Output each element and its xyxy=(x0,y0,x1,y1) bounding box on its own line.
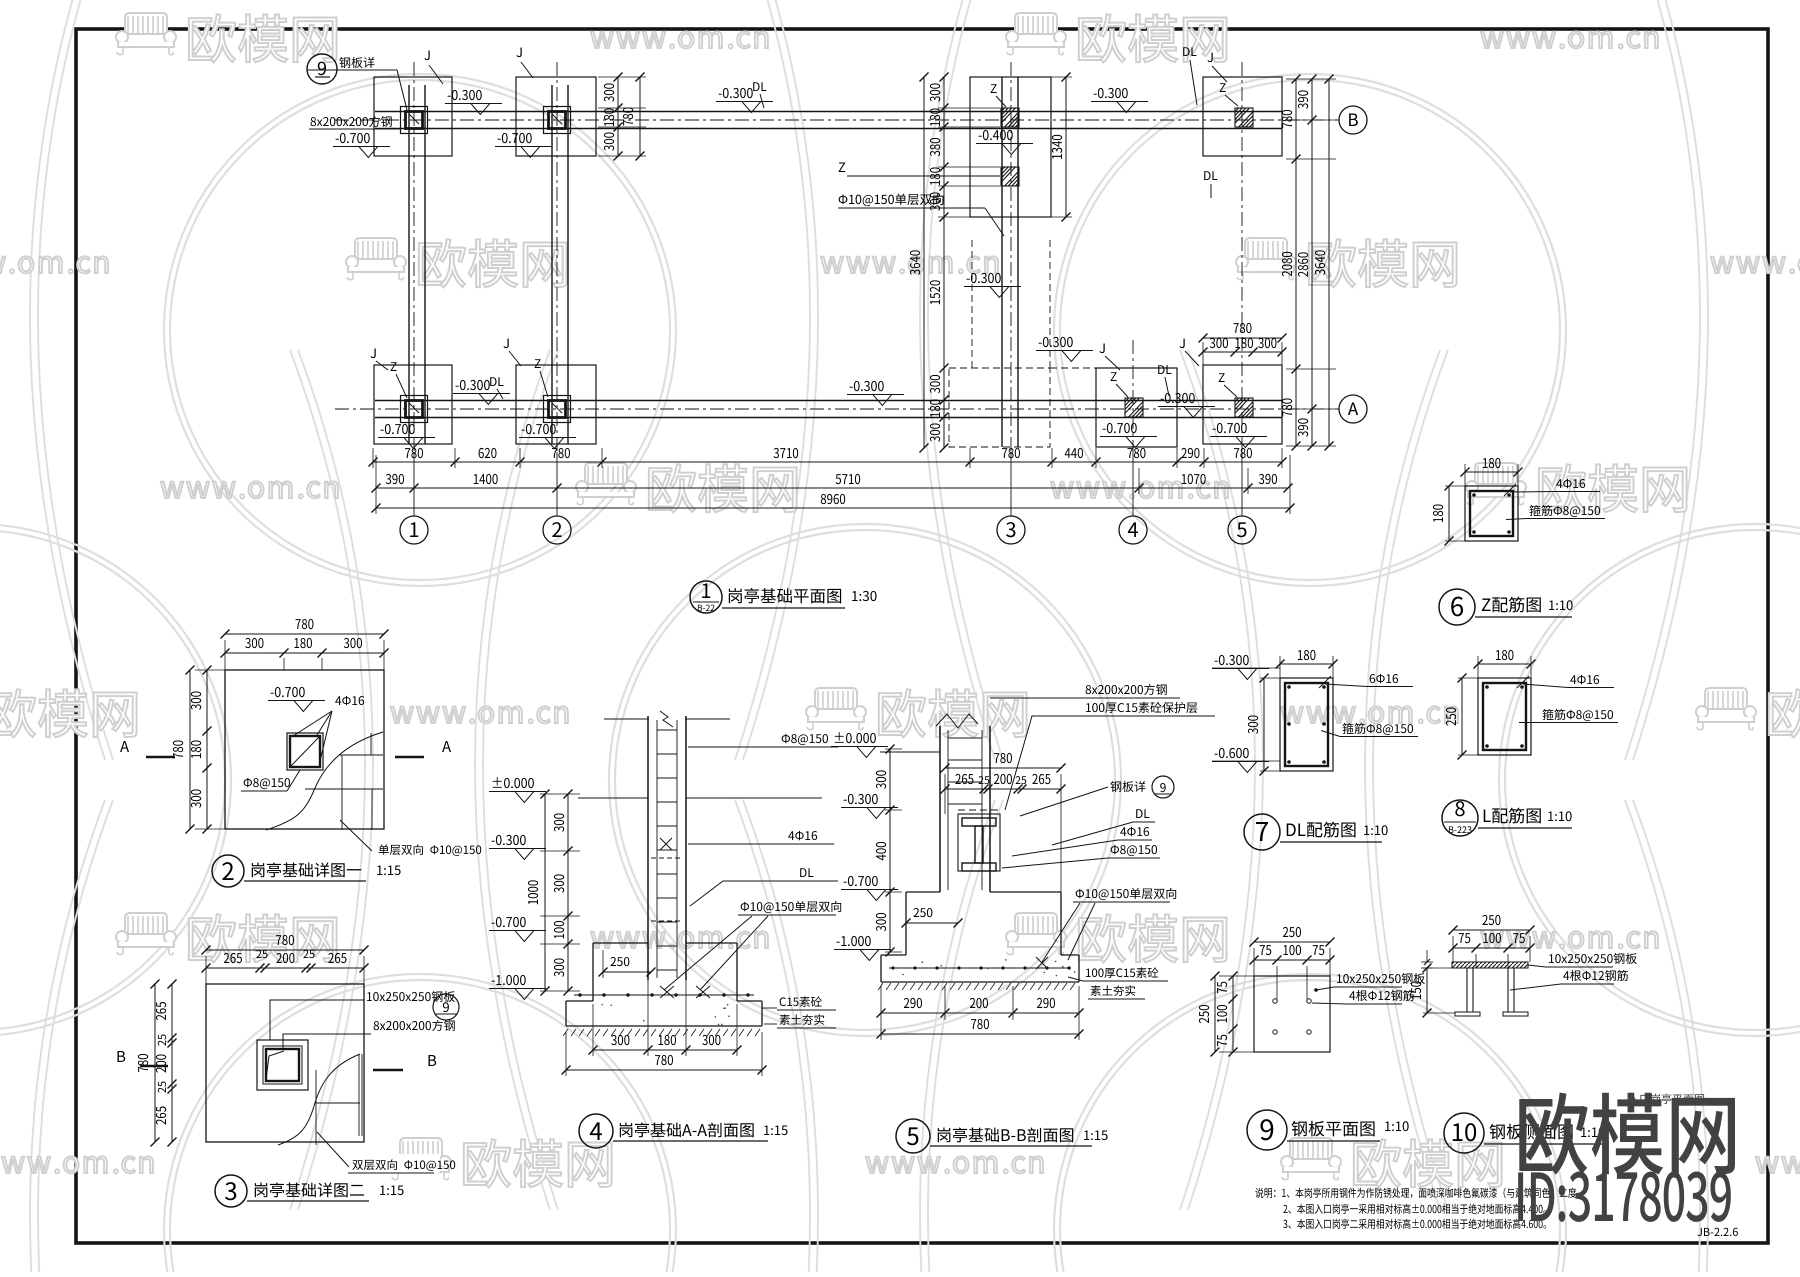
hatched column Z grid5-B xyxy=(1235,108,1253,127)
ground beam DL axis B xyxy=(375,111,1282,113)
dim chain row2 bottom xyxy=(376,487,1288,489)
section A-A elevation 0.000 xyxy=(493,777,534,788)
small text entry booth xyxy=(1628,1094,1704,1104)
detail2 section mark A right xyxy=(442,741,451,752)
elevation -0.300 beam B mid xyxy=(719,88,753,98)
hatched column Z grid5-A xyxy=(1235,398,1253,417)
label Z leader xyxy=(839,162,846,172)
label DL top xyxy=(753,82,766,91)
label Z grid4-A xyxy=(1111,372,1117,381)
title 6 xyxy=(1439,589,1475,625)
label Z grid5-A xyxy=(1219,373,1225,382)
label Z grid2-A xyxy=(535,359,541,368)
section A-A column shaft xyxy=(647,716,649,980)
elevation -0.300 grid4 xyxy=(1161,393,1195,403)
section B-B label 100 C15 cover xyxy=(1086,702,1197,713)
elevation -0.700 grid2-B xyxy=(498,133,532,143)
detail3 left dim 780 xyxy=(154,984,156,1142)
section A-A elevation -1.000 xyxy=(492,975,526,985)
column square grid2-B xyxy=(544,107,571,134)
site watermark big text xyxy=(1519,1093,1735,1175)
footing J grid5-A xyxy=(1203,365,1282,444)
title 4 xyxy=(579,1114,613,1148)
axis grid line 3 xyxy=(1010,62,1012,452)
detail figure 2 outer footing square xyxy=(225,670,384,829)
section B-B top dim 780 xyxy=(945,767,1061,769)
section A-A elevation -0.700 xyxy=(492,917,526,927)
axis bubble A xyxy=(1339,395,1367,423)
label DL bottom right xyxy=(1158,365,1171,374)
detail2 top dim 300 180 300 xyxy=(225,652,384,654)
figure10 label steel plate xyxy=(1549,953,1637,964)
figure10 label 4 rebar xyxy=(1563,970,1628,981)
label DL mid right xyxy=(1204,171,1217,180)
title 9 xyxy=(1247,1110,1287,1150)
figure 8 L rebar section xyxy=(1478,678,1531,755)
elevation -0.700 grid4-A xyxy=(1103,423,1137,433)
dim chain right side xyxy=(1286,78,1336,80)
square steel column line grid1 xyxy=(408,85,410,444)
detail2 label 4phi16 xyxy=(335,696,364,705)
hatched column Z grid3 mid xyxy=(1001,167,1019,186)
section B-B bottom dim 780 xyxy=(881,1033,1079,1035)
axis grid line 4 xyxy=(1132,340,1134,452)
drawing number JB-2.2.6 xyxy=(1697,1228,1738,1236)
label DL bottom left xyxy=(490,377,503,386)
title 3 xyxy=(215,1175,247,1207)
detail2 leader to bottom label xyxy=(340,820,372,851)
figure10 dim 40 plate xyxy=(1426,950,1428,962)
detail3 column square double xyxy=(257,1040,308,1090)
section A-A bottom dim 780 xyxy=(566,1069,762,1071)
figure7 elevation -0.600 xyxy=(1215,748,1249,758)
section B-B label DL xyxy=(1136,809,1149,818)
detail2 label phi8at150 xyxy=(244,778,290,789)
section B-B footing step xyxy=(906,891,940,893)
column square grid1-B xyxy=(401,107,428,134)
section A-A pad rebar dots xyxy=(578,993,581,996)
detail2 left dim 780 xyxy=(189,670,191,829)
dim above footing grid5-A xyxy=(1203,337,1282,339)
figure10 top dim 75 100 75 xyxy=(1453,947,1530,949)
watermark circles xyxy=(164,74,676,586)
footing J grid1-B xyxy=(374,77,452,156)
section A-A ground level line xyxy=(578,797,648,799)
axis grid line 2 xyxy=(556,62,558,452)
footing J grid5-B xyxy=(1203,77,1282,156)
elevation -0.700 grid2-A xyxy=(522,424,556,434)
elevation -0.300 top left xyxy=(448,90,482,100)
label J top2 xyxy=(516,47,521,57)
section B-B label phi8at150 xyxy=(1111,845,1157,856)
section A-A label compacted soil xyxy=(780,1014,825,1025)
grid bubble 4 xyxy=(1119,516,1147,544)
elevation -0.400 grid3 xyxy=(979,130,1013,140)
dim chain row3 bottom xyxy=(376,507,1290,509)
section B-B footing pad xyxy=(880,955,882,982)
section A-A dim 250 xyxy=(610,957,629,966)
label Z grid5-B xyxy=(1220,83,1226,92)
detail3 break wave curve xyxy=(278,1054,360,1145)
section A-A label phi8at150 xyxy=(782,734,828,745)
detail2 top dim 780 xyxy=(225,633,384,635)
figure9 top dim 250 xyxy=(1254,941,1330,943)
axis line A horizontal xyxy=(335,408,1339,410)
footing J grid2-A xyxy=(516,365,596,444)
section A-A bottom dim 300 180 300 xyxy=(592,1004,594,1056)
dashed section trace lines xyxy=(971,240,973,368)
section B-B elevation 0.000 xyxy=(835,732,876,743)
section B-B column top break xyxy=(936,714,978,728)
detail3 label square steel xyxy=(374,1020,455,1031)
detail2 elevation -0.700 xyxy=(271,687,305,697)
section B-B elevation -0.300 xyxy=(844,794,878,804)
section B-B elevation -0.700 xyxy=(844,876,878,886)
section B-B label compacted soil xyxy=(1091,985,1136,996)
detail2 column square xyxy=(287,733,323,770)
section B-B elevation -1.000 xyxy=(837,936,871,946)
figure 6 Z rebar section xyxy=(1465,486,1518,541)
section B-B column shaft xyxy=(939,726,941,892)
detail2 label single layer both ways xyxy=(379,844,482,856)
elevation -0.300 beam A left xyxy=(456,380,490,390)
section A-A elevation -0.300 xyxy=(492,835,526,845)
axis grid line 5 xyxy=(1241,62,1243,452)
section B-B steel plate box xyxy=(958,814,1000,871)
section A-A footing pad xyxy=(565,1001,567,1026)
figure10 top dim 250 xyxy=(1453,929,1530,931)
title 1 plan xyxy=(690,581,722,613)
hatched column Z grid3-B xyxy=(1001,108,1019,127)
dim 1340 grid3 right xyxy=(1065,77,1067,217)
section B-B label 100 C15 xyxy=(1086,967,1158,978)
detail3 top dim 780 xyxy=(206,949,364,951)
grid bubble 3 xyxy=(997,516,1025,544)
figure10 dim 150 xyxy=(1426,968,1428,1013)
figure 7 DL rebar section xyxy=(1280,678,1333,771)
figure9 left dim 75 100 75 xyxy=(1232,976,1234,1052)
detail figure 3 outer footing square xyxy=(206,984,364,1142)
elevation -0.300 beam B right xyxy=(1094,88,1128,98)
detail3 label double layer both ways xyxy=(352,1159,455,1171)
title 10 xyxy=(1444,1113,1484,1153)
label DL top grid5 xyxy=(1183,47,1196,56)
column square grid2-A xyxy=(544,396,571,423)
axis line B horizontal xyxy=(335,119,1339,121)
label J top grid5 xyxy=(1207,52,1212,62)
grid bubble 5 xyxy=(1228,516,1256,544)
detail3 section mark B right xyxy=(429,1055,437,1066)
dim chain row1 bottom xyxy=(372,448,374,468)
figure10 feet xyxy=(1455,1012,1480,1016)
section B-B label phi10 single layer xyxy=(1076,888,1177,900)
figure9 label 4 rebar xyxy=(1349,990,1414,1001)
label J bottom grid5 xyxy=(1179,338,1184,348)
elevation -0.300 grid3 mid xyxy=(1039,337,1073,347)
elevation -0.700 grid1-A xyxy=(381,424,415,434)
notes text xyxy=(1255,1188,1579,1199)
detail3 top dim 265 25 200 25 265 xyxy=(206,967,364,969)
column square grid1-A xyxy=(401,396,428,423)
elevation -0.700 grid1-B xyxy=(336,133,370,143)
dashed footing outline mid xyxy=(949,368,1050,447)
detail3 slab rebar lines xyxy=(358,1054,360,1136)
label J bottom grid4 xyxy=(1099,343,1104,353)
figure9 left dim 250 xyxy=(1214,976,1216,1052)
footing grid3-B tall xyxy=(970,77,1051,217)
detail3 label steel plate xyxy=(367,991,455,1002)
label J top1 xyxy=(424,50,429,60)
title 2 xyxy=(212,855,244,887)
title 8 xyxy=(1442,800,1478,836)
section A-A label DL xyxy=(800,868,813,877)
square steel column line grid2 xyxy=(551,85,553,444)
watermark logos xyxy=(116,13,337,62)
elevation -0.300 dashed wall xyxy=(967,273,1001,283)
section A-A column top break xyxy=(604,718,649,720)
label J bottom2 xyxy=(503,338,508,348)
section B-B ground level line xyxy=(880,751,940,753)
detail3 left dim 265 25 200 25 265 xyxy=(171,984,173,1142)
detail2 section mark A left xyxy=(120,741,129,752)
footing J grid4-A xyxy=(1096,368,1177,447)
elevation -0.300 beam A mid xyxy=(850,381,884,391)
detail2 break wave curve xyxy=(266,732,383,830)
section B-B steel plate ref bubble 9 xyxy=(1110,781,1145,792)
figure 9 steel plate plan xyxy=(1254,976,1330,1052)
figure9 label steel plate xyxy=(1337,973,1425,984)
footing J grid2-B xyxy=(516,77,596,156)
section B-B bottom dim 290 200 290 xyxy=(880,986,882,1040)
detail3 section mark B left xyxy=(118,1051,126,1062)
figure7 elevation -0.300 xyxy=(1215,655,1249,665)
footing J grid1-A xyxy=(374,365,452,444)
label J bottom1 xyxy=(370,348,375,358)
detail2 left dim 300 180 300 xyxy=(206,670,208,829)
axis grid line 1 xyxy=(413,62,415,452)
section B-B label square steel xyxy=(1086,684,1167,695)
section B-B ground hatch xyxy=(878,983,883,990)
title 5 xyxy=(896,1119,930,1153)
dim chain grid3 left xyxy=(943,77,945,448)
elevation -0.700 grid5-A xyxy=(1213,423,1247,433)
section B-B dim 250 xyxy=(913,908,932,917)
label Z grid1-A xyxy=(391,362,397,371)
dim chain between F2 xyxy=(617,77,619,156)
grid bubble 1 xyxy=(400,516,428,544)
detail bubble 9 steel plate ref xyxy=(307,54,337,84)
figure9 top dim 75 100 75 xyxy=(1254,959,1330,961)
grid bubble 2 xyxy=(543,516,571,544)
section A-A ground hatch xyxy=(563,1029,568,1036)
ground beam DL axis A xyxy=(375,400,1282,402)
title 7 xyxy=(1244,814,1280,850)
section B-B dim chain xyxy=(889,749,891,952)
section A-A label phi10 single layer xyxy=(741,901,842,913)
axis bubble B xyxy=(1339,106,1367,134)
hatched column Z grid4-A xyxy=(1125,398,1143,417)
section A-A footing step xyxy=(593,942,648,944)
label 8x200x200 square steel xyxy=(311,116,392,127)
figure10 legs xyxy=(1466,968,1468,1012)
ground beam grid3 vertical xyxy=(1001,77,1003,447)
detail2 slab rebar lines xyxy=(340,754,383,756)
detail3 leader to bottom label xyxy=(317,1132,349,1167)
section A-A label 4phi16 xyxy=(788,831,817,840)
detail3 bubble 9 xyxy=(433,994,459,1020)
section B-B label 4phi16 xyxy=(1120,827,1149,836)
section A-A dim chain right of elevations xyxy=(567,794,569,991)
section B-B top dim 265 25 200 25 265 xyxy=(945,788,1061,790)
label phi10 at 150 single layer both ways xyxy=(839,193,944,206)
section A-A label C15 concrete xyxy=(780,996,822,1007)
label Z grid3-B xyxy=(991,84,997,93)
section B-B pad rebar dots xyxy=(891,966,894,969)
